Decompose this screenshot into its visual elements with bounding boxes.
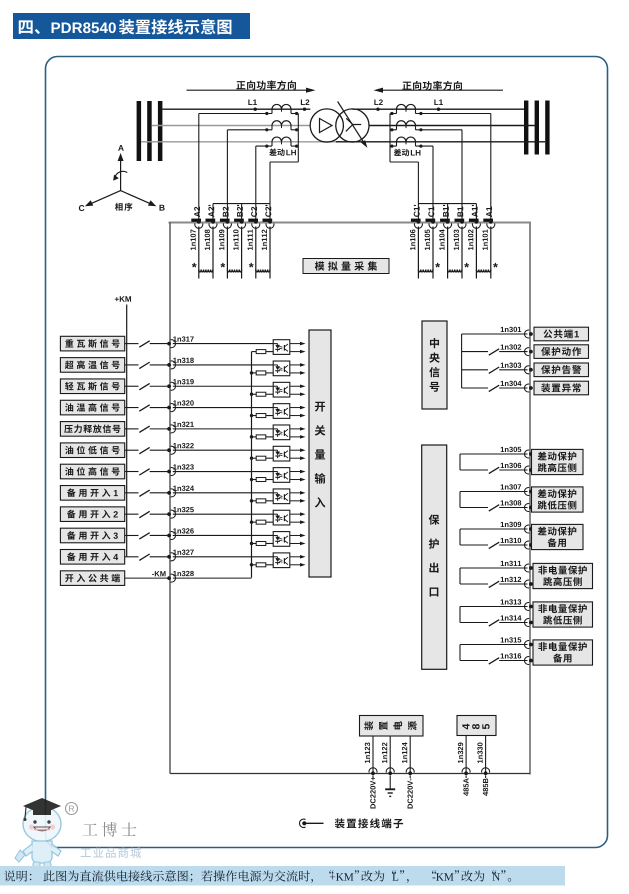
contact switch 1n319	[139, 383, 149, 389]
CT coil 差动LH left phase B	[272, 121, 291, 126]
wire phase C left	[141, 141, 343, 143]
wire into analog input 1n111	[255, 227, 257, 279]
node L1 right	[434, 99, 443, 105]
wire 油位低信号 to switch	[125, 449, 139, 451]
note text	[4, 870, 15, 881]
wire 1n322 to optocoupler	[173, 449, 273, 451]
rotation arc	[115, 171, 128, 177]
polarity mark right-block phase B right	[419, 128, 422, 131]
CT coil 差动LH right phase C	[397, 137, 416, 142]
title text 装置接线示意图	[119, 19, 232, 35]
wire CT left stub right-block phase C	[396, 142, 398, 146]
optocoupler U10 with resistor R10	[250, 542, 253, 545]
contact switch 1n323	[139, 469, 149, 475]
wire drop to terminal C1-prime	[417, 162, 419, 223]
output pair 1n315/1n316 非电量保护备用	[460, 644, 528, 646]
wire 1n328 common to bus	[173, 577, 252, 579]
terminal B1 / 1n103	[455, 219, 465, 222]
terminal 1n327	[167, 555, 171, 559]
contact switch 1n322	[139, 447, 149, 453]
optocoupler U4 with resistor R4	[250, 414, 253, 417]
wire 1n320 to optocoupler	[173, 407, 273, 409]
input signal box 开入公共端	[60, 571, 124, 586]
output pair 1n309/1n310 差动保护备用	[460, 528, 528, 530]
wire 备用开入2 to switch	[125, 513, 139, 515]
tap changer arrow	[338, 102, 365, 144]
wire 1n317 to optocoupler	[173, 343, 273, 345]
watermark 工博士	[83, 822, 137, 837]
module box 开关量输入	[309, 330, 331, 577]
wire 1n326 to optocoupler	[173, 534, 273, 536]
terminal A2' / 1n108	[206, 219, 216, 222]
CT coil 差动LH right phase A	[397, 104, 416, 109]
terminal C2 / 1n111	[248, 219, 258, 222]
input signal box 备用开入4	[60, 550, 124, 565]
node L1 left	[248, 99, 257, 105]
optocoupler U6 with resistor R6	[250, 457, 253, 460]
wire optocoupler common bus	[251, 352, 253, 578]
label 差动LH right	[394, 149, 409, 157]
optocoupler U2 with resistor R2	[250, 371, 253, 374]
terminal 1n319	[167, 384, 171, 388]
wire common return right CT	[389, 114, 391, 163]
junction L2 right	[376, 108, 379, 111]
output 1n301 公共端1	[462, 333, 528, 335]
module box 模拟量采集	[303, 259, 389, 274]
polarity mark phase A left	[265, 112, 268, 115]
wire 1n318 to optocoupler	[173, 364, 273, 366]
wire CT lead to terminal A1	[416, 113, 491, 115]
wire CT right lead phase B	[291, 129, 298, 131]
node L2 left	[301, 99, 309, 105]
wire CT right stub right-block phase B	[415, 126, 417, 130]
output pair 1n307/1n308 差动保护跳低压侧	[460, 491, 528, 493]
input signal box 备用开入2	[60, 507, 124, 522]
contact switch 1n327	[139, 554, 149, 560]
wire CT left stub phase A	[271, 109, 273, 113]
wire neutral bus left	[213, 203, 270, 205]
wire drop to terminal B2-prime	[241, 204, 243, 223]
wire drop to terminal A1	[490, 114, 492, 223]
output 1n303 保护告警	[462, 369, 488, 371]
contact switch 1n325	[139, 511, 149, 517]
wire into analog input 1n104	[447, 227, 449, 279]
contact switch 1n318	[139, 362, 149, 368]
wire 1n319 to optocoupler	[173, 385, 273, 387]
wire CT right lead phase A	[291, 113, 298, 115]
wire drop to terminal C1	[432, 146, 434, 222]
label 1n326	[173, 528, 194, 533]
wire phase B left	[152, 125, 310, 127]
terminal C1 / 1n105	[426, 219, 436, 222]
label 485A	[463, 778, 468, 796]
delta winding symbol	[320, 119, 333, 133]
title text 四、	[19, 20, 40, 34]
wire drop to terminal A1-prime	[475, 204, 477, 223]
legend terminal symbol	[302, 821, 306, 825]
note bar	[0, 866, 565, 886]
polarity mark right-block phase A left	[390, 112, 393, 115]
label 1n321	[173, 422, 194, 427]
wire CT left stub phase B	[271, 126, 273, 130]
wire phase A right	[352, 108, 524, 110]
arrow forward power left	[187, 89, 309, 91]
wire return jog right	[390, 161, 418, 163]
terminal A1 / 1n101	[483, 219, 493, 222]
terminal 1n322	[167, 448, 171, 452]
optocoupler U5 with resistor R5	[250, 435, 253, 438]
terminal 1n321	[167, 427, 171, 431]
label 相序	[115, 203, 132, 211]
optocoupler U7 with resistor R7	[250, 478, 253, 481]
terminal 1n324	[167, 491, 171, 495]
wire CT right stub phase B	[290, 126, 292, 130]
wire drop to terminal B1-prime	[447, 204, 449, 223]
wire 1n323 to optocoupler	[173, 471, 273, 473]
polarity mark phase B right	[295, 128, 298, 131]
input signal box 油温高信号	[60, 400, 124, 415]
watermark logo 工博士	[15, 798, 61, 871]
node L2 right	[374, 99, 382, 105]
registered mark	[66, 803, 78, 815]
wire drop to terminal C2	[255, 146, 257, 222]
output 1n302 保护动作	[462, 351, 488, 353]
polarity mark right-block phase C left	[390, 145, 393, 148]
label 1n324	[173, 486, 194, 491]
label 正向功率方向 left	[236, 80, 296, 89]
wire 备用开入3 to switch	[125, 534, 139, 536]
module box 保护出口	[422, 445, 447, 669]
input CT winding pair 1n102/1n101	[476, 270, 490, 272]
wire to terminal 1n122	[389, 736, 391, 774]
wire 开入公共端 to terminal	[125, 577, 168, 579]
input CT winding pair 1n106/1n105	[418, 270, 433, 272]
wire CT right lead phase C	[291, 145, 298, 147]
contact switch 1n324	[139, 490, 149, 496]
polarity mark phase B left	[265, 128, 268, 131]
wire into analog input 1n106	[417, 227, 419, 279]
wire 油位高信号 to switch	[125, 471, 139, 473]
wire CT lead to common right-block phase C	[390, 145, 397, 147]
stub below 1n123	[372, 776, 374, 779]
input CT winding pair 1n107/1n108	[199, 270, 213, 272]
junction L2 left	[303, 108, 306, 111]
polarity mark phase A right	[295, 112, 298, 115]
wire into analog input 1n107	[198, 227, 200, 279]
polarity mark phase C left	[265, 145, 268, 148]
wire to terminal 1n124	[409, 736, 411, 774]
wire 1n324 to optocoupler	[173, 492, 273, 494]
wire phase-seq axis A	[120, 158, 122, 191]
faint url watermark	[60, 873, 189, 884]
wire CT right stub right-block phase A	[415, 109, 417, 113]
wire CT right stub phase A	[290, 109, 292, 113]
wire 备用开入1 to switch	[125, 492, 139, 494]
wire to terminal 1n330	[485, 736, 487, 774]
label 正向功率方向 right	[402, 81, 462, 90]
module box 中央信号	[422, 321, 447, 409]
wire 重瓦斯信号 to switch	[125, 343, 139, 345]
CT coil 差动LH right phase B	[397, 121, 416, 126]
module box 装置电源	[360, 716, 424, 737]
terminal 1n320	[167, 406, 171, 410]
input signal box 超高温信号	[60, 358, 124, 373]
input signal box 备用开入3	[60, 528, 124, 543]
junction L1 right	[437, 108, 440, 111]
contact switch 1n320	[139, 405, 149, 411]
terminal A1' / 1n102	[469, 219, 479, 222]
wire drop to terminal B2	[226, 130, 228, 223]
transformer T1 (two winding circles)	[310, 109, 343, 142]
terminal C1' / 1n106	[411, 219, 421, 222]
node +KM	[115, 296, 131, 302]
wire central signal bus	[461, 334, 463, 388]
terminal B1' / 1n104	[440, 219, 450, 222]
label 1n325	[173, 507, 194, 512]
wire into analog input 1n112	[269, 227, 271, 279]
outer border frame	[46, 57, 608, 848]
terminal 1n326	[167, 534, 171, 538]
input signal box 油位高信号	[60, 464, 124, 479]
wire CT left stub right-block phase A	[396, 109, 398, 113]
output pair 1n305/1n306 差动保护跳高压侧	[460, 453, 528, 455]
input signal box 轻瓦斯信号	[60, 379, 124, 394]
label 1n319	[173, 379, 194, 384]
busbar left (3-phase)	[137, 101, 142, 161]
wire phase B right	[369, 125, 535, 127]
wire phase C right	[336, 141, 545, 143]
label 1n318	[173, 358, 194, 363]
wire into analog input 1n101	[490, 227, 492, 279]
wire return jog left	[270, 161, 298, 163]
label C	[79, 205, 85, 211]
polarity mark right-block phase B left	[390, 128, 393, 131]
title text PDR8540	[52, 22, 116, 33]
wire +KM bus	[126, 305, 128, 557]
wye winding symbol	[346, 118, 361, 131]
optocoupler U11 with resistor R11	[250, 563, 253, 566]
label 1n327	[173, 550, 193, 555]
ground symbol	[389, 776, 391, 789]
wire CT lead to common right-block phase B	[390, 129, 397, 131]
wire drop to terminal B1	[461, 130, 463, 223]
wire phase-seq axis C	[90, 191, 121, 205]
wire phase-seq axis B	[121, 191, 152, 205]
label 1n323	[173, 464, 194, 469]
wire 1n325 to optocoupler	[173, 513, 273, 515]
stub below 1n124	[409, 776, 411, 779]
terminal 1n325	[167, 512, 171, 516]
wire 备用开入4 to switch	[125, 556, 139, 558]
terminal 1n328	[167, 576, 171, 580]
legend label 装置接线端子	[335, 818, 403, 828]
wire to terminal 1n123	[372, 736, 374, 774]
wire CT right stub right-block phase C	[415, 142, 417, 146]
CT coil 差动LH left phase C	[272, 137, 291, 142]
contact switch 1n326	[139, 533, 149, 539]
arrow forward power right	[381, 89, 503, 91]
wire 油温高信号 to switch	[125, 407, 139, 409]
label DC220V-	[407, 779, 412, 809]
polarity mark right-block phase A right	[419, 112, 422, 115]
contact switch 1n317	[139, 341, 149, 347]
input signal box 压力释放信号	[60, 422, 124, 437]
label 差动LH left	[269, 148, 284, 156]
input signal box 备用开入1	[60, 486, 124, 501]
node -KM	[152, 571, 165, 576]
optocoupler U9 with resistor R9	[250, 520, 253, 523]
wire CT secondary lead to terminal B2	[227, 129, 272, 131]
wire CT lead to terminal B1	[416, 129, 463, 131]
wire CT left stub right-block phase B	[396, 126, 398, 130]
wire common return left CT	[297, 114, 299, 163]
wire 压力释放信号 to switch	[125, 428, 139, 430]
terminal 1n323	[167, 470, 171, 474]
label 1n322	[173, 443, 193, 448]
wire 1n321 to optocoupler	[173, 428, 273, 430]
polarity mark phase C right	[295, 145, 298, 148]
terminal 1n317	[167, 342, 171, 346]
busbar right (3-phase)	[524, 101, 528, 155]
device enclosure box	[169, 222, 532, 224]
CT coil 差动LH left phase A	[272, 104, 291, 109]
wire drop to terminal C2-prime	[269, 162, 271, 223]
module box 485	[457, 716, 496, 736]
label B	[159, 205, 164, 211]
terminal 1n318	[167, 363, 171, 367]
wire CT secondary lead to terminal A2	[199, 113, 272, 115]
terminal B2 / 1n109	[220, 219, 230, 222]
output 1n304 装置异常	[462, 387, 488, 389]
polarity mark right-block phase C right	[419, 145, 422, 148]
output pair 1n311/1n312 非电量保护跳高压侧	[460, 567, 528, 569]
stub below 1n330	[485, 776, 487, 779]
terminal B2' / 1n110	[234, 219, 244, 222]
terminal C2' / 1n112	[263, 219, 273, 222]
label 1n317	[173, 336, 193, 341]
input signal box 油位低信号	[60, 443, 124, 458]
stub below 1n329	[465, 776, 467, 779]
label A	[118, 145, 124, 151]
input CT winding pair 1n104/1n103	[448, 270, 462, 272]
optocoupler U1 with resistor R1	[252, 351, 257, 353]
wire into analog input 1n103	[461, 227, 463, 279]
wire 1n327 to optocoupler	[173, 556, 273, 558]
wire into analog input 1n105	[432, 227, 434, 279]
label 1n320	[173, 400, 193, 405]
input CT winding pair 1n109/1n110	[227, 270, 241, 272]
wire into analog input 1n109	[226, 227, 228, 279]
label 485B	[483, 778, 488, 795]
wire into analog input 1n102	[475, 227, 477, 279]
wire 轻瓦斯信号 to switch	[125, 385, 139, 387]
wire CT lead to common right-block phase A	[390, 113, 397, 115]
wire phase A left (bus to transformer)	[162, 108, 310, 110]
input signal box 重瓦斯信号	[60, 336, 124, 351]
junction L1 left	[254, 108, 257, 111]
wire to terminal 1n329	[465, 736, 467, 774]
title bar	[13, 13, 250, 39]
label DC220V+	[370, 777, 375, 809]
wire into analog input 1n110	[241, 227, 243, 279]
wire drop to terminal A2-prime	[212, 204, 214, 223]
optocoupler U8 with resistor R8	[250, 499, 253, 502]
wire drop to terminal A2	[198, 114, 200, 223]
wire neutral bus right	[418, 203, 476, 205]
wire CT left stub phase C	[271, 142, 273, 146]
optocoupler U3 with resistor R3	[250, 393, 253, 396]
input CT winding pair 1n111/1n112	[256, 270, 270, 272]
label 1n328	[173, 571, 194, 576]
wire CT lead to terminal C1	[416, 145, 434, 147]
watermark 工业品商城	[81, 847, 142, 858]
contact switch 1n321	[139, 426, 149, 432]
output pair 1n313/1n314 非电量保护跳低压侧	[460, 606, 528, 608]
wire CT secondary lead to terminal C2	[256, 145, 272, 147]
wire CT right stub phase C	[290, 142, 292, 146]
terminal A2 / 1n107	[191, 219, 201, 222]
wire 超高温信号 to switch	[125, 364, 139, 366]
wire into analog input 1n108	[212, 227, 214, 279]
